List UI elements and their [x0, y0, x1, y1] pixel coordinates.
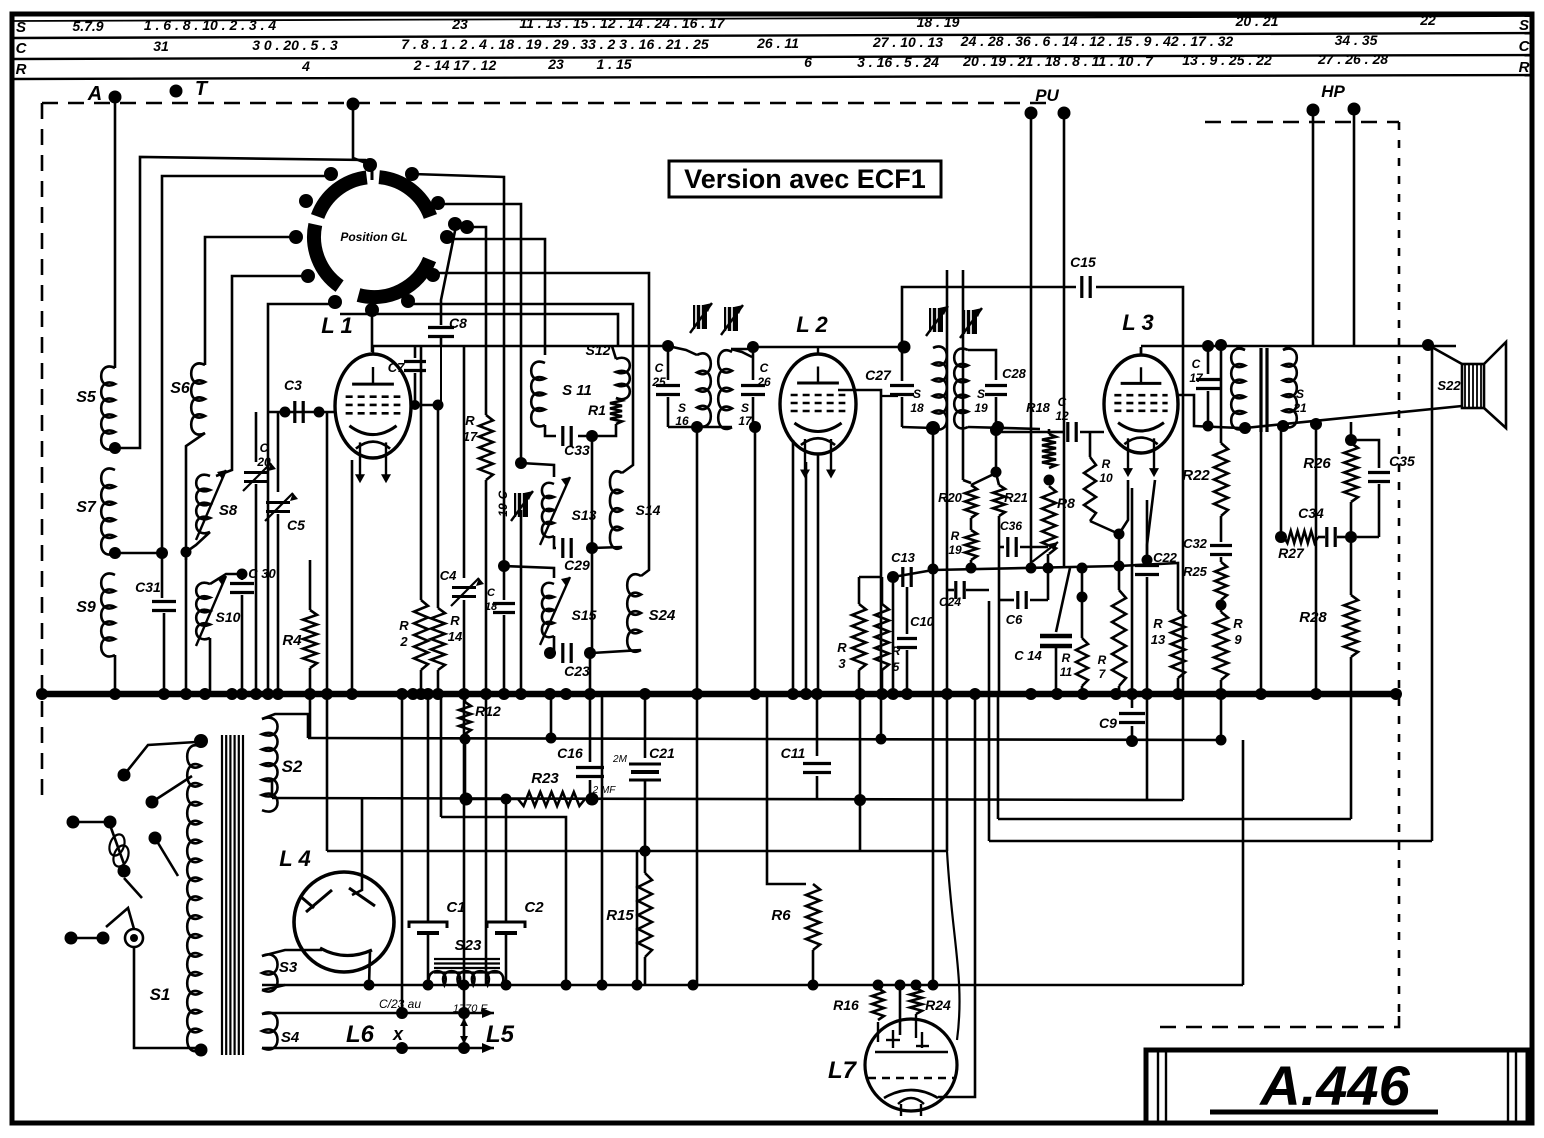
svg-text:C: C [496, 490, 510, 499]
wire R22 top [1220, 345, 1223, 443]
coil S20 output primary [1231, 349, 1245, 430]
wire x1243 corner [1242, 740, 1245, 985]
svg-text:27 . 26 . 28: 27 . 26 . 28 [1317, 51, 1388, 67]
trimmer capacitor C19 [496, 490, 533, 521]
wire x1261 to bus [1260, 430, 1263, 694]
svg-text:R6: R6 [771, 907, 791, 924]
dashed border right segment [1398, 122, 1401, 1016]
wire contact to vertical x521 [440, 204, 521, 463]
mains switch contacts [67, 769, 162, 878]
wire x989 down to y841 [988, 601, 991, 841]
svg-text:13 . 9 . 25 . 22: 13 . 9 . 25 . 22 [1182, 52, 1272, 68]
wire contact to S7 column [162, 176, 327, 553]
svg-text:R: R [1062, 651, 1071, 665]
coil S7 [76, 468, 115, 554]
svg-text:2 MF: 2 MF [592, 785, 617, 796]
wire y816 line [441, 817, 566, 851]
capacitor C15 [1070, 254, 1096, 298]
capacitor C21 electrolytic [612, 694, 675, 851]
resistor R5 [875, 577, 901, 692]
node S19 bottom [992, 421, 1004, 433]
wire x637 down [636, 851, 639, 985]
terminal T [170, 78, 360, 111]
R row numbers [301, 51, 1388, 74]
svg-text:C9: C9 [1099, 715, 1117, 731]
wire grid return line y568 [893, 566, 1119, 577]
svg-text:1 . 6 . 8 . 10 . 2 . 3 . 4: 1 . 6 . 8 . 10 . 2 . 3 . 4 [144, 17, 277, 33]
svg-text:S: S [741, 401, 749, 415]
wire S15 bracket [504, 566, 554, 578]
svg-text:L 1: L 1 [321, 313, 352, 338]
node S20 bottom [1239, 422, 1251, 434]
wire y985 line [262, 984, 1243, 987]
svg-text:C31: C31 [135, 579, 161, 595]
node S21 bottom [1277, 420, 1289, 432]
wire L4 grid [352, 798, 362, 895]
resistor R19 [948, 518, 977, 568]
wire HP left down [1312, 110, 1315, 346]
resistor R17 [463, 227, 493, 692]
svg-text:3 . 16 . 5 . 24: 3 . 16 . 5 . 24 [857, 54, 939, 70]
svg-text:R23: R23 [531, 770, 559, 787]
svg-text:20 . 19 . 21 . 18 . 8 . 11 .: 20 . 19 . 21 . 18 . 8 . 11 . 10 . 7 [962, 53, 1154, 69]
capacitor C7 [388, 346, 426, 405]
svg-text:C16: C16 [557, 745, 583, 761]
trimmer core S18 [926, 306, 948, 336]
svg-text:11 . 13 . 15 . 12 . 14 . 24 .: 11 . 13 . 15 . 12 . 14 . 24 . 16 . 17 [519, 15, 725, 31]
resistor R22 [1182, 443, 1228, 516]
wire rotary to L1 grid [371, 310, 374, 352]
svg-text:S9: S9 [76, 599, 96, 616]
coil S11 [531, 362, 592, 427]
svg-text:R: R [1102, 457, 1111, 471]
resistor R7 [1098, 534, 1126, 692]
resistor R18 [1026, 400, 1056, 468]
wire S16 bottom line [668, 426, 732, 429]
svg-text:R25: R25 [1183, 564, 1208, 579]
wire y819 line [998, 818, 1351, 821]
rotary switch contact dots [289, 158, 474, 317]
coil S16 [668, 346, 711, 428]
wire C3 line [268, 411, 336, 414]
capacitor C22 [1135, 500, 1178, 692]
row label C right [1519, 38, 1531, 55]
output transformer core [1261, 348, 1267, 432]
node R18 bottom [1044, 475, 1055, 486]
node x1224 top [1215, 339, 1227, 351]
capacitor C27 [865, 347, 914, 427]
svg-text:L6: L6 [346, 1021, 375, 1048]
resistor R9 [1214, 605, 1243, 740]
wire L3 bottom left down [1119, 480, 1128, 534]
wire x486 down [485, 694, 488, 985]
wire L1 anode right [410, 404, 438, 407]
svg-text:A.446: A.446 [1258, 1054, 1410, 1117]
svg-text:S3: S3 [279, 959, 298, 976]
node L1 grid line junction [662, 340, 674, 352]
svg-text:23: 23 [547, 56, 564, 72]
node C9 bottom [1126, 735, 1138, 747]
resistor R2 [399, 346, 428, 692]
svg-text:S: S [1296, 387, 1304, 401]
svg-text:C21: C21 [649, 745, 675, 761]
node R25 bottom [1216, 600, 1227, 611]
dashed border top-right segment [1205, 121, 1399, 124]
svg-text:C13: C13 [891, 550, 916, 565]
svg-text:R27: R27 [1278, 545, 1305, 561]
row label R left [16, 61, 27, 78]
wire x860 below bus [859, 694, 862, 800]
svg-text:S24: S24 [649, 607, 676, 624]
resistor R25 [1183, 557, 1227, 600]
tube L2 label [796, 312, 828, 337]
table row line under S row [11, 33, 1533, 38]
svg-text:S23: S23 [455, 937, 482, 954]
wire anode supply line y346 [1141, 345, 1456, 348]
node S17 bottom [749, 421, 761, 433]
svg-text:R: R [837, 640, 847, 655]
wire S6 bottom jog [186, 433, 205, 560]
svg-text:5.7.9: 5.7.9 [72, 18, 103, 34]
svg-text:R1: R1 [588, 402, 606, 418]
transformer primary S1 [150, 745, 201, 1051]
tube L4 label [279, 846, 310, 871]
wire S19 bottom line [968, 427, 1040, 429]
svg-text:7: 7 [1099, 667, 1107, 681]
wire slant to C8 [441, 226, 456, 325]
capacitor C23 [563, 643, 590, 679]
coil S23 with core [429, 937, 504, 985]
dashed border left segment [41, 103, 44, 800]
svg-text:R: R [1098, 653, 1107, 667]
svg-text:R20: R20 [938, 490, 963, 505]
row label R right [1519, 59, 1530, 76]
wire PU right down [1063, 113, 1066, 566]
coil S5 [76, 367, 115, 450]
capacitor C12 [1049, 395, 1104, 442]
svg-text:S7: S7 [76, 499, 97, 516]
node C7 bottom [410, 400, 420, 410]
capacitor C16 [557, 694, 604, 799]
wire x443 below bus [440, 694, 443, 817]
wire S17 to L2 grid [753, 346, 904, 349]
row label S left [16, 19, 26, 36]
wire x566 down [565, 851, 568, 985]
svg-text:R: R [951, 529, 960, 543]
svg-text:S10: S10 [216, 609, 241, 625]
wire x590 to bus [589, 653, 592, 692]
wire x602 down [601, 694, 604, 985]
node R23 left [460, 793, 473, 806]
capacitor C14 [1014, 568, 1072, 692]
svg-text:C8: C8 [449, 315, 467, 331]
resistor R27 horizontal [1278, 531, 1318, 561]
trimmer core S19 [960, 308, 982, 338]
wire x860 down [859, 800, 862, 851]
node C2 top [501, 794, 512, 805]
wire y314 [340, 314, 618, 346]
tube L1 [335, 346, 411, 458]
node y739 x551 [546, 733, 557, 744]
svg-text:S6: S6 [170, 380, 190, 397]
wire S20 top [1236, 346, 1245, 350]
variable capacitor C20 [243, 412, 276, 692]
node C17 top [1202, 340, 1214, 352]
svg-text:Position GL: Position GL [340, 230, 407, 244]
wire contact to vertical x506 [413, 174, 504, 566]
capacitor C28 [968, 350, 1027, 427]
node box grid line [898, 341, 911, 354]
node speaker line [1422, 339, 1434, 351]
svg-text:HP: HP [1321, 82, 1345, 101]
wire contact to S6 top [205, 237, 293, 365]
svg-text:26 . 11: 26 . 11 [756, 35, 799, 51]
node R19 bottom [966, 563, 977, 574]
wire S8 bottom [186, 532, 210, 552]
svg-text:S4: S4 [281, 1029, 300, 1046]
coil S17 [718, 349, 753, 429]
wire x521 down [520, 510, 523, 692]
title box Version avec ECF1 [669, 161, 941, 197]
wire R4 below bus [309, 668, 312, 738]
variable capacitor C5 [265, 412, 305, 692]
svg-text:C: C [1192, 357, 1201, 371]
wire L2 plate to supply [838, 390, 898, 739]
wire AVC bracket [971, 424, 1049, 485]
svg-text:C28: C28 [1002, 366, 1027, 381]
svg-text:C: C [1519, 38, 1531, 55]
svg-text:L5: L5 [486, 1021, 515, 1048]
svg-text:12: 12 [1055, 409, 1069, 423]
svg-text:17: 17 [463, 429, 478, 444]
svg-text:13: 13 [1151, 632, 1166, 647]
resistor R14 [431, 405, 463, 692]
wire R26 top [1350, 422, 1353, 443]
capacitor C36 [999, 516, 1048, 694]
wire S13 bottom to C29 [554, 536, 556, 548]
wire x1148 below bus [1146, 694, 1149, 800]
coil S2 secondary [262, 718, 303, 812]
svg-text:C35: C35 [1389, 453, 1415, 469]
resistor R11 [1060, 568, 1088, 692]
svg-text:R12: R12 [475, 703, 501, 719]
svg-text:PU: PU [1035, 86, 1059, 105]
IF transformer 2 box [902, 287, 1183, 430]
svg-text:R16: R16 [833, 997, 859, 1013]
wire x697 to bus [696, 427, 699, 692]
ground bus [42, 691, 1396, 698]
wire y851 line [327, 850, 947, 853]
capacitor C25 [651, 346, 680, 427]
row label S right [1519, 17, 1529, 34]
resistor R13 [1151, 610, 1185, 692]
capacitor C13 [891, 550, 916, 587]
wire PU left down [1030, 113, 1033, 568]
svg-text:C6: C6 [1006, 612, 1023, 627]
wire contact to S11 top [447, 239, 545, 355]
trimmer core S16 [690, 303, 712, 333]
svg-text:S14: S14 [636, 502, 661, 518]
wire x327 below bus [326, 412, 329, 851]
svg-text:S22: S22 [1437, 378, 1461, 393]
capacitor C6 [999, 591, 1048, 627]
node x998 y819 [0, 0, 1, 1]
svg-text:R22: R22 [1182, 467, 1210, 484]
node C30 top [237, 569, 248, 580]
coil S14 [610, 471, 661, 548]
terminal PU [1025, 86, 1071, 120]
wire x464 down [463, 694, 466, 1048]
node C23 right [584, 647, 596, 659]
node S5 bottom [109, 442, 121, 454]
node L3 anode out [1203, 421, 1214, 432]
node C3 left [280, 407, 291, 418]
coil S6 [170, 363, 205, 434]
wire S18 bottom down [932, 428, 935, 985]
node S13 bracket [515, 457, 527, 469]
svg-text:3 0 . 20 . 5 . 3: 3 0 . 20 . 5 . 3 [252, 37, 338, 53]
node S7 bottom [109, 547, 121, 559]
svg-text:C29: C29 [564, 557, 590, 573]
svg-text:R4: R4 [282, 632, 302, 649]
svg-text:C10: C10 [910, 614, 935, 629]
wire S3 top lead [262, 950, 322, 956]
wire T down to rotary switch [353, 104, 366, 163]
svg-text:2: 2 [399, 634, 408, 649]
svg-text:4: 4 [301, 58, 310, 74]
svg-text:C22: C22 [1153, 550, 1178, 565]
title block A.446 box [1146, 1050, 1528, 1123]
wire L1 cathode to bus [351, 460, 354, 692]
wire L4 cathode lead [369, 952, 370, 985]
capacitor C30 [230, 566, 276, 692]
handwritten note [379, 997, 488, 1015]
resistor R28 [1299, 537, 1358, 819]
svg-text:19: 19 [948, 543, 962, 557]
resistor R3 [837, 577, 866, 692]
transformer core [222, 735, 243, 1055]
wire contact to S8 top [216, 276, 305, 476]
resistor R4 [282, 560, 317, 668]
node C21 y851 [640, 846, 651, 857]
capacitor C17 [1189, 346, 1220, 426]
coil S21 output secondary [1283, 349, 1307, 428]
capacitor C31 [135, 553, 176, 692]
wire S10 top to C30 [210, 574, 242, 584]
svg-text:19: 19 [496, 503, 510, 517]
svg-text:27 . 10 . 13: 27 . 10 . 13 [872, 34, 943, 50]
svg-text:2 - 14 17 . 12: 2 - 14 17 . 12 [413, 57, 497, 73]
wire R12 down to R23 [464, 739, 467, 799]
resistor R16 [833, 988, 884, 1020]
wire S15 bottom to C23 [554, 636, 556, 653]
svg-text:S5: S5 [76, 389, 97, 406]
node y568 dots [928, 561, 1125, 575]
svg-text:C: C [760, 361, 769, 375]
node L5 dots [396, 1042, 470, 1054]
svg-text:R: R [399, 618, 409, 633]
node y739 x868 [876, 734, 887, 745]
resistor R6 [767, 694, 820, 985]
lamp L6 label [346, 1021, 404, 1048]
svg-text:C 30: C 30 [248, 566, 276, 581]
wire L3 cathode to bus [1131, 488, 1134, 694]
coil S13 adjustable [540, 477, 597, 545]
svg-text:R: R [465, 413, 475, 428]
variable capacitor C4 [440, 346, 484, 692]
wire x592 mid [591, 548, 594, 653]
svg-text:S15: S15 [572, 607, 597, 623]
wire S12 bottom to C33 [578, 424, 616, 436]
coil S18 adjustable [910, 347, 946, 430]
node y800 x860 [854, 794, 866, 806]
svg-text:S1: S1 [150, 985, 171, 1004]
svg-text:10: 10 [1099, 471, 1113, 485]
wire S21 top [1283, 346, 1290, 350]
svg-text:23: 23 [451, 16, 468, 32]
coil S19 adjustable [954, 349, 988, 429]
capacitor C3 [284, 377, 303, 423]
wire S11 bottom to C33 [545, 425, 556, 436]
wire contact to S24 top [435, 273, 649, 576]
wire x963 vertical [963, 270, 971, 483]
wire L3 top to line [1140, 347, 1143, 356]
capacitor C24 [939, 581, 989, 609]
svg-text:R28: R28 [1299, 609, 1327, 626]
svg-text:S13: S13 [572, 507, 597, 523]
svg-text:18 . 19: 18 . 19 [917, 14, 960, 30]
svg-text:R15: R15 [606, 907, 634, 924]
wire x592 down [591, 436, 594, 548]
node C33 junction [586, 430, 598, 442]
svg-text:R21: R21 [1004, 490, 1028, 505]
wire y800 line [272, 798, 1183, 800]
svg-text:C15: C15 [1070, 254, 1096, 270]
wire x755 to bus [754, 427, 757, 692]
svg-text:26: 26 [756, 375, 771, 389]
wire R3 R5 top [859, 576, 882, 579]
voltage selector contacts [65, 929, 144, 947]
fuse symbol [107, 832, 132, 868]
svg-text:S: S [678, 401, 686, 415]
wire L1 grid line y346 [372, 345, 668, 348]
svg-text:R8: R8 [1057, 495, 1075, 511]
wire S4 leads [262, 1013, 272, 1048]
svg-text:C: C [16, 40, 28, 57]
resistor R1 [588, 398, 622, 424]
wire x1183 box edge down [1182, 430, 1185, 800]
coil S9 [76, 574, 115, 657]
wire L5 line [272, 1043, 494, 1053]
svg-text:R24: R24 [925, 997, 951, 1013]
svg-text:R: R [1233, 616, 1243, 631]
wire y739 line [308, 738, 1221, 740]
coil S12 [586, 342, 630, 399]
svg-text:17: 17 [1189, 371, 1204, 385]
node R27 line right [1345, 531, 1357, 543]
wire x551 bus to y739 [550, 694, 553, 738]
svg-text:L7: L7 [828, 1057, 858, 1084]
svg-text:R: R [1519, 59, 1530, 76]
node C29 junction [586, 542, 598, 554]
node L6 dots [396, 1007, 470, 1019]
wire R8 arrow tap [1032, 542, 1058, 600]
resistor R12 [459, 694, 501, 739]
wire x697 down [696, 694, 699, 985]
svg-text:S: S [1519, 17, 1529, 34]
svg-text:6: 6 [804, 54, 812, 70]
tube L1 label [321, 313, 352, 338]
